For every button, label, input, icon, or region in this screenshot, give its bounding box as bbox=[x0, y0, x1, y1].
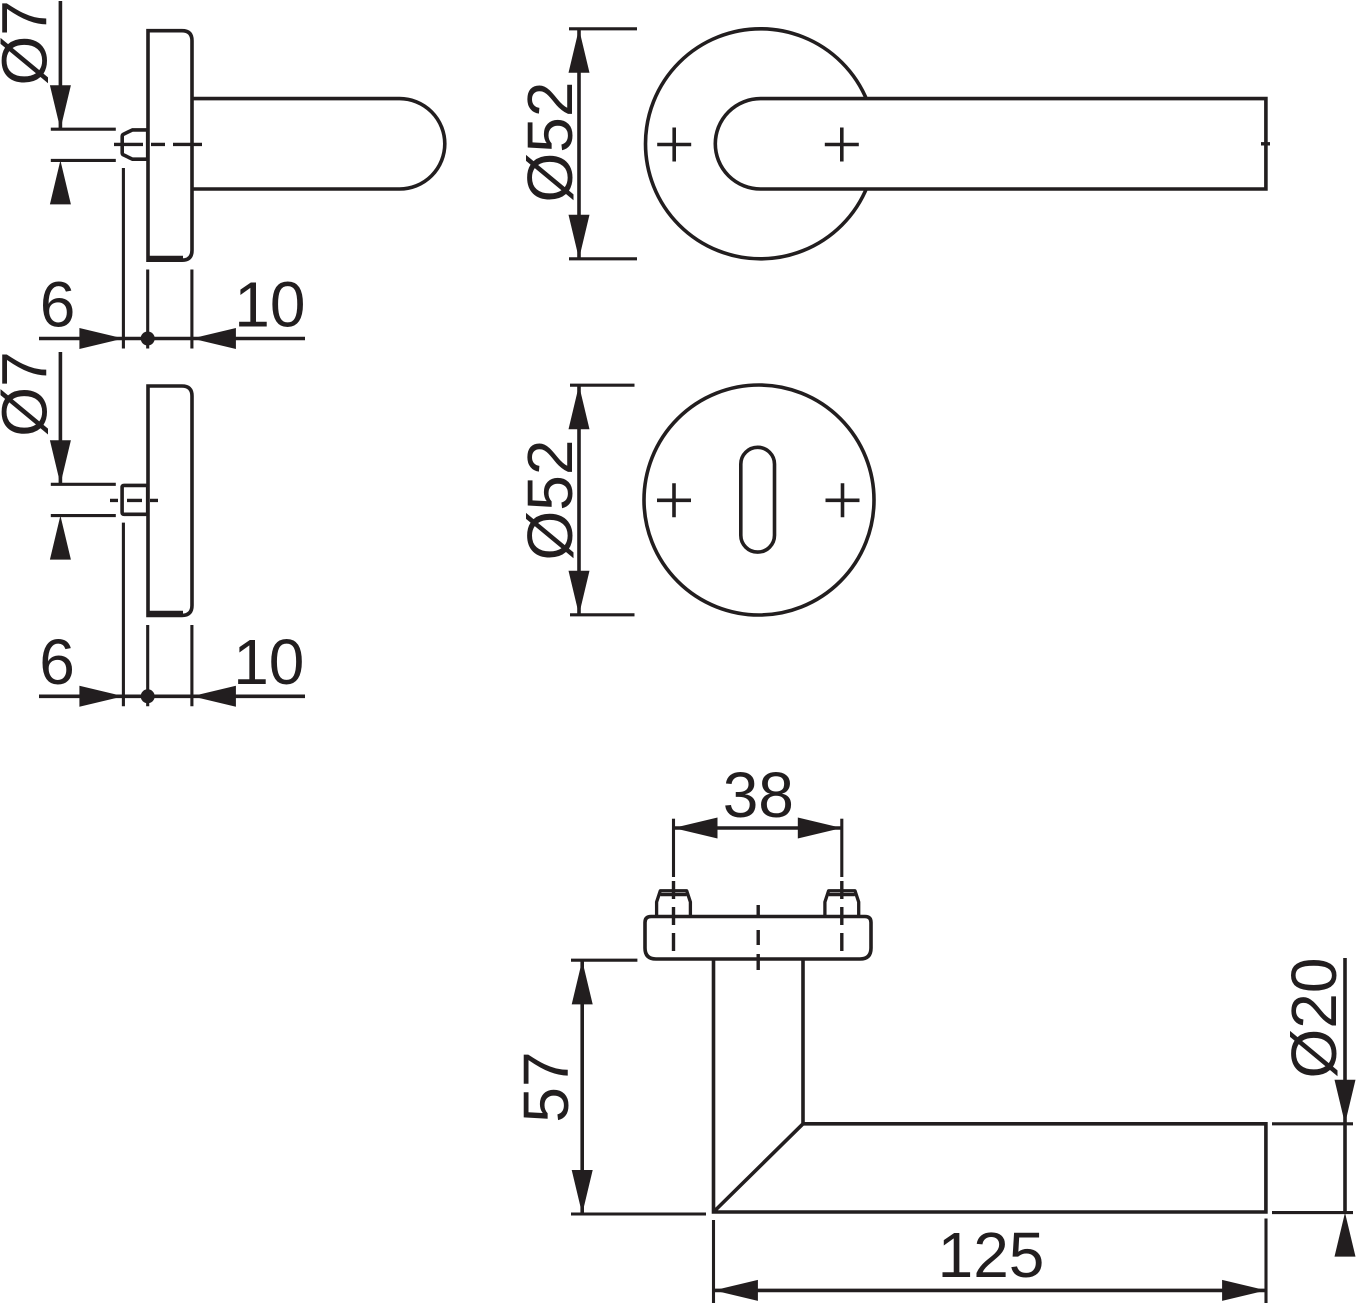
dimension 57 (view E) arrow up bbox=[572, 960, 593, 1004]
handle grip profile (view A) bbox=[192, 99, 445, 189]
spindle stub (view B) bbox=[122, 485, 148, 514]
extension line stub-left (view A) bbox=[122, 168, 125, 349]
svg-text:Ø7: Ø7 bbox=[0, 0, 61, 85]
dimension Ø7 (view A) arrow up bbox=[50, 160, 71, 204]
dimension Ø7 (view B) arrow down bbox=[50, 440, 71, 484]
dimension Ø52 (view C) arrow up bbox=[569, 29, 590, 73]
extension line rose-right (view B) bbox=[190, 625, 193, 706]
screw left (view E) bbox=[657, 891, 691, 917]
lever centerline nub (view C) bbox=[1261, 142, 1270, 145]
dimension Ø20 (view E) dimension line bbox=[1343, 958, 1347, 1213]
dimension Ø20 (view E) arrow up bbox=[1335, 1213, 1356, 1257]
dimension 6/10 (view A) dimension line bbox=[39, 337, 305, 341]
dimension 6/10 (view B) dot bbox=[141, 689, 155, 703]
dimension Ø52 (view D) dimension line bbox=[577, 385, 581, 615]
dimension Ø7 (view B) extension line bottom bbox=[51, 514, 116, 517]
svg-text:6: 6 bbox=[40, 268, 76, 340]
keyhole (view D) bbox=[741, 447, 775, 552]
svg-text:Ø52: Ø52 bbox=[514, 82, 586, 203]
dimension 57 (view E) arrow down bbox=[572, 1170, 593, 1214]
dimension Ø52 (view C) arrow down bbox=[569, 215, 590, 259]
dimension Ø20 (view E) extension line top bbox=[1272, 1122, 1353, 1125]
dimension 38 (view E) dimension line bbox=[674, 826, 842, 830]
svg-text:10: 10 bbox=[233, 626, 304, 698]
dimension Ø52 (view D) tick top bbox=[570, 384, 635, 387]
extension line rose-left (view B) bbox=[146, 625, 149, 706]
dimension 6/10 (view A) dot bbox=[141, 332, 155, 346]
svg-text:10: 10 bbox=[234, 268, 305, 340]
dimension 10 (view B) arrow left bbox=[192, 686, 236, 707]
extension line rose-right (view A) bbox=[190, 270, 193, 349]
dimension Ø7 (view B) dimension line bbox=[59, 352, 63, 484]
dimension 57 (view E) extension line top bbox=[571, 959, 637, 962]
dimension 125 (view E) dimension line bbox=[714, 1289, 1266, 1293]
dimension Ø20 (view E) arrow down bbox=[1335, 1080, 1356, 1124]
svg-text:Ø52: Ø52 bbox=[514, 440, 586, 561]
extension line rose-left (view A) bbox=[146, 270, 149, 349]
screw centerline right (view E) bbox=[840, 881, 843, 951]
screw right (view E) bbox=[825, 891, 859, 917]
rose face bottom edge (view B) bbox=[148, 611, 183, 615]
dimension Ø52 (view C) tick bottom bbox=[569, 257, 637, 260]
dimension 6 (view A) arrow right bbox=[79, 328, 123, 349]
screw cross left (view C) bbox=[657, 128, 691, 162]
spindle stub (view A) bbox=[122, 130, 148, 159]
dimension 125 (view E) arrow right bbox=[1222, 1280, 1266, 1301]
rose profile (view A) bbox=[148, 31, 192, 261]
centerline (view A) bbox=[114, 143, 205, 146]
key rose circle (view D) bbox=[644, 385, 874, 615]
dimension 38 (view E) arrow left bbox=[674, 818, 718, 839]
dimension Ø52 (view D) tick bottom bbox=[570, 613, 635, 616]
rose profile (view B) bbox=[148, 386, 192, 615]
svg-text:57: 57 bbox=[510, 1051, 582, 1122]
centerline (view B) bbox=[110, 499, 158, 502]
svg-text:38: 38 bbox=[723, 759, 794, 831]
screw centerline left (view E) bbox=[672, 881, 675, 951]
dimension Ø7 (view A) extension line bottom bbox=[51, 159, 116, 162]
dimension Ø52 (view C) tick top bbox=[569, 27, 637, 30]
lever handle front (view C) bbox=[715, 99, 1266, 189]
dimension Ø20 (view E) extension line bottom bbox=[1272, 1211, 1353, 1214]
rose centerline middle (view E) bbox=[757, 905, 760, 971]
dimension 125 (view E) extension line right bbox=[1264, 1219, 1267, 1304]
dimension 38 (view E) extension line right bbox=[840, 819, 843, 877]
svg-text:Ø7: Ø7 bbox=[0, 351, 61, 436]
rose circle (view C) bbox=[646, 29, 876, 259]
dimension 38 (view E) arrow right bbox=[798, 818, 842, 839]
rose face bottom edge (view A) bbox=[148, 256, 183, 260]
svg-text:6: 6 bbox=[39, 626, 75, 698]
dimension Ø7 (view A) arrow down bbox=[50, 85, 71, 129]
dimension Ø7 (view A) extension line top bbox=[51, 128, 116, 131]
screw cross left (view D) bbox=[657, 483, 691, 517]
dimension 57 (view E) dimension line bbox=[580, 960, 584, 1214]
dimension 125 (view E) extension line left bbox=[712, 1220, 715, 1303]
dimension 57 (view E) extension line bottom bbox=[571, 1212, 706, 1215]
dimension 6/10 (view B) dimension line bbox=[39, 694, 305, 698]
dimension 6 (view B) arrow right bbox=[79, 686, 123, 707]
dimension Ø52 (view C) dimension line bbox=[577, 29, 581, 259]
dimension Ø7 (view B) extension line top bbox=[51, 483, 116, 486]
screw cross right (view D) bbox=[826, 483, 860, 517]
extension line stub-left (view B) bbox=[122, 523, 125, 707]
lever handle profile (view E) bbox=[714, 959, 1266, 1212]
dimension 38 (view E) extension line left bbox=[672, 819, 675, 877]
dimension Ø7 (view B) arrow up bbox=[50, 516, 71, 560]
svg-text:Ø20: Ø20 bbox=[1278, 958, 1350, 1079]
dimension Ø52 (view D) arrow up bbox=[569, 385, 590, 429]
svg-text:125: 125 bbox=[938, 1219, 1045, 1291]
dimension 125 (view E) arrow left bbox=[714, 1280, 758, 1301]
rose bar (view E) bbox=[645, 917, 871, 960]
dimension Ø7 (view A) dimension line bbox=[59, 1, 63, 129]
screw cross right (view C) bbox=[825, 128, 859, 162]
dimension 10 (view A) arrow left bbox=[192, 328, 236, 349]
dimension Ø52 (view D) arrow down bbox=[569, 571, 590, 615]
